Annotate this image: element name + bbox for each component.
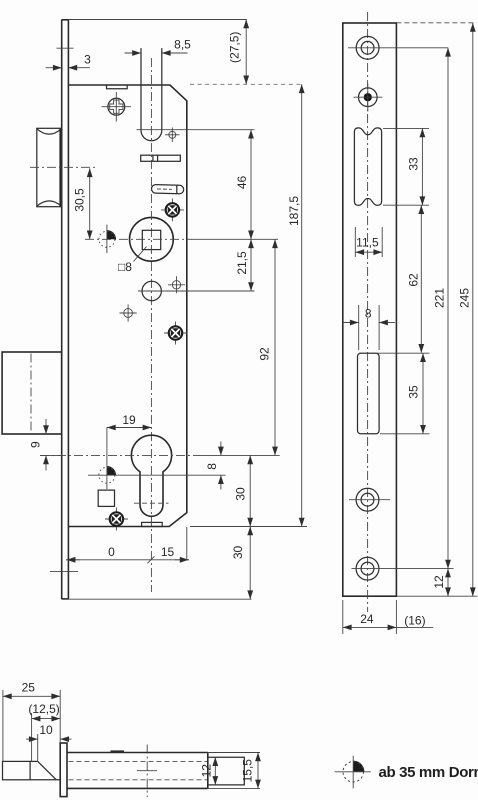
screw S2 (dark, under follower) [161,199,184,222]
dim 11,5 [355,227,382,257]
svg-text:245: 245 [457,288,471,308]
screw S4 (dark, bottom) [105,508,128,531]
dim 8,5 [125,38,192,54]
dim 8 (slot width) [342,305,395,350]
svg-text:24: 24 [360,612,374,626]
svg-text:15,5: 15,5 [241,759,255,783]
dim 9 [28,419,60,471]
screw hole lower 1 [349,488,390,511]
dim 0 / 15 [66,527,189,563]
variable backset symbol (legend) [335,756,371,789]
ext latch opening bottom [383,204,429,206]
svg-text:62: 62 [407,273,421,287]
top fixing lug [107,85,128,89]
pivot pin small circle [165,128,180,143]
case body (top view) [67,753,208,789]
svg-text:30: 30 [231,546,245,560]
svg-text:11,5: 11,5 [356,236,379,250]
dim 221 [432,48,448,569]
cross hole left [120,304,137,321]
countersunk screw hole top [348,36,448,59]
dim 62 [407,205,422,353]
latch roller reference line [137,129,255,131]
latch stem (guide channel) [141,48,162,141]
small circle below follower [138,281,255,300]
hidden depth top edge [396,22,476,24]
svg-text:(16): (16) [404,614,425,628]
latch bevel diagonal [38,761,57,779]
follower hub circle [130,217,174,261]
dim (27,5) [228,20,247,85]
deadbolt [2,352,62,434]
dim 8 (cylinder offset) [205,442,221,490]
svg-text:46: 46 [235,176,249,190]
pin hole (filled) [354,84,383,112]
svg-text:92: 92 [258,347,272,361]
svg-text:25: 25 [22,681,36,695]
svg-text:12: 12 [200,764,214,778]
dim 245 [457,23,472,596]
ext line plate top [68,19,246,21]
follower horizontal centerline [85,238,196,240]
section centerline with tick [137,745,157,798]
dim 92 [258,239,275,455]
cylinder hidden line [134,502,169,504]
dim 30,5 [73,168,90,239]
ext lines 15,5 [208,752,260,754]
screw S1 (phillips, top) [102,92,132,122]
case tail (narrow end) [208,757,245,785]
deadbolt slot [358,353,380,434]
svg-text:10: 10 [39,723,53,737]
dim 30 lower [231,527,250,600]
lock case outline [68,85,186,527]
svg-text:33: 33 [407,157,421,171]
svg-text:□8: □8 [118,260,132,274]
horizontal slot [141,155,181,161]
latch bottom edge [30,779,60,781]
latch centerline [30,166,95,168]
variable backset symbol (lower) [88,428,226,490]
svg-text:221: 221 [432,288,446,308]
svg-text:15: 15 [161,545,175,559]
latch bolt head (roller) [37,128,62,206]
dim 12 (hole to end) [432,569,448,597]
dim 19 [107,413,151,428]
small square lower [98,490,114,506]
screw hole lower 2 [352,557,454,580]
cross hole right [168,276,185,293]
svg-text:0: 0 [108,545,115,559]
svg-text:30,5: 30,5 [73,188,87,212]
dim 35 [380,353,430,434]
latch roller (top view) [3,761,31,779]
latch bevel top edge [30,760,38,762]
follower square hole [142,230,160,249]
strike/face plate (front view) [343,23,397,596]
dim 25 [3,681,60,762]
label square-8 with leader [118,247,147,275]
dim 187,5 [287,84,302,526]
faceplate bar (top view) [60,743,67,797]
dim 3 (plate thickness) [46,53,92,68]
faceplate break tick bottom [50,570,78,572]
spring bump on top edge [111,750,125,752]
ext case bottom right [190,526,307,528]
hidden latch channel lines [69,760,208,762]
svg-text:9: 9 [28,441,42,448]
plate bottom ext [396,595,477,597]
dim 33 [383,128,429,205]
dim 12 (tail height) [200,757,216,785]
svg-text:8: 8 [205,463,219,470]
ext plate bottom right [68,598,251,600]
ext slot top [359,352,430,354]
dim 21,5 [235,239,251,291]
main vertical centerline [150,58,152,592]
dim 15,5 [241,753,258,789]
euro profile cylinder hole [131,435,171,516]
bottom tab [142,522,163,526]
svg-text:12: 12 [432,575,446,589]
svg-text:8: 8 [365,307,372,321]
dim 24 [343,600,397,634]
dim 10 [26,723,72,761]
svg-text:3: 3 [84,53,91,67]
plate vertical centerline [367,12,369,612]
svg-text:187,5: 187,5 [287,196,301,226]
svg-text:21,5: 21,5 [235,251,249,275]
ext line case top [190,83,303,85]
spring lever (capsule pin) [151,184,183,193]
variable backset symbol (upper) [99,225,116,254]
faceplate break tick top [57,47,74,49]
svg-text:19: 19 [122,413,136,427]
svg-text:8,5: 8,5 [174,38,191,52]
cylinder horizontal centerline [40,454,196,456]
dim (16) [396,614,433,628]
svg-text:30: 30 [234,487,248,501]
svg-text:(27,5): (27,5) [228,32,242,63]
svg-text:ab 35 mm Dorn: ab 35 mm Dorn [379,764,478,781]
dim (12,5) [28,702,60,761]
dim 46 [235,130,251,240]
svg-text:(12,5): (12,5) [28,702,59,716]
dim 30 upper [234,455,251,526]
latch roller opening (spool) [354,128,381,205]
screw S3 (dark, mid) [164,322,187,345]
faceplate (front view, left edge) [62,20,69,600]
svg-text:35: 35 [406,385,420,399]
